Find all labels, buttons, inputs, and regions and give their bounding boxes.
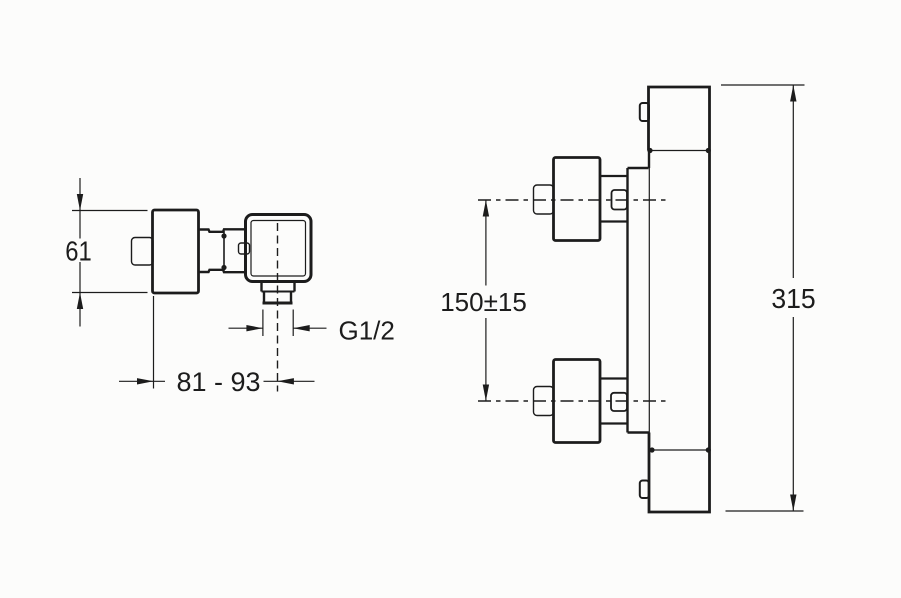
front view: lower small tab (611, 393, 627, 411)
dim 61: arrow down (77, 194, 83, 211)
front view: lower centerline (478, 400, 666, 402)
front view: top cap junction dot right (706, 148, 711, 153)
dim 315: arrow down (790, 495, 796, 512)
dim 315: lower dimension line (792, 317, 794, 511)
side view: outlet nut right side (293, 281, 295, 292)
dim G1/2: left arrow (246, 325, 263, 331)
dim 315: arrow up (790, 85, 796, 102)
front view: top cap side tab (640, 103, 649, 121)
side view: neck top edge (199, 229, 246, 232)
front view: connecting pipe left edge (626, 168, 628, 433)
dim 81-93: left dimension line (119, 380, 165, 382)
front view: top cap bottom edge (649, 150, 710, 152)
front view: lower collar top edge (600, 377, 627, 379)
dim 315: bottom extension line (726, 510, 804, 512)
dim 61: vertical dimension line upper (79, 178, 81, 239)
front view: bottom cap junction dot left (649, 447, 654, 452)
dim 81-93: extension line (153, 296, 155, 389)
front view: bottom cap side tab (640, 481, 649, 499)
side view: neck bottom edge (199, 270, 246, 272)
dim 61: bottom extension line (72, 292, 148, 294)
front view: bar left edge (648, 168, 650, 433)
dim G1/2: right dimension line (293, 327, 326, 329)
side view: handle button (132, 238, 154, 266)
front view: upper collar bottom edge (600, 220, 627, 222)
dim 150: lower dimension line (485, 318, 487, 401)
side view: aerator bottom (263, 302, 293, 305)
front view: upper handle (554, 158, 601, 241)
dim 150: upper dimension line (485, 200, 487, 286)
front view: bar left edge upper segment (648, 151, 650, 169)
front view: connecting pipe bottom edge (628, 431, 650, 433)
side view: neck junction dot bottom (221, 265, 226, 270)
side view: neck junction dot top (221, 233, 226, 238)
svg-text:81 - 93: 81 - 93 (176, 367, 260, 397)
dim 315: top extension line (721, 84, 805, 86)
side view: outlet shoulder (262, 291, 295, 293)
front view: upper handle button (534, 185, 554, 214)
dim G1/2: right extension line (292, 310, 294, 337)
dim 315: upper dimension line (792, 85, 794, 278)
dim G1/2: left extension line (262, 310, 264, 337)
dim G1/2: left dimension line (229, 327, 263, 329)
svg-text:315: 315 (771, 282, 815, 314)
front view: top cap junction dot left (647, 148, 652, 153)
dim 150: arrow up (483, 200, 489, 217)
side view: aerator right side (290, 292, 292, 304)
dim 61: vertical dimension line lower (79, 262, 81, 327)
front view: bottom cap junction dot right (706, 447, 711, 452)
dim 81-93: left arrow (137, 378, 154, 384)
svg-text:G1/2: G1/2 (339, 316, 395, 346)
svg-text:150±15: 150±15 (440, 287, 527, 317)
front view: lower handle (554, 360, 601, 443)
side view: handle knob (153, 210, 199, 293)
front view: bottom cap top edge (652, 449, 710, 451)
front view: upper collar top edge (600, 175, 627, 177)
dim 150: arrow down (483, 385, 489, 402)
svg-text:61: 61 (65, 235, 91, 267)
dim 61: arrow up (77, 293, 83, 310)
side view: vertical dashed centerline (277, 223, 279, 392)
front view: top cap (649, 87, 710, 151)
side view: aerator left side (263, 292, 265, 304)
dim 61: top extension line (72, 210, 148, 212)
side view: square body inner line (251, 221, 306, 277)
front view: bottom cap (649, 433, 710, 513)
front view: lower collar bottom edge (600, 422, 627, 424)
front view: connecting pipe top edge (628, 167, 649, 169)
front view: lower handle button (534, 387, 554, 416)
side view: clip tab on body left (239, 243, 250, 254)
side view: flange front edge (244, 230, 246, 273)
side view: neck inner line 2 (223, 231, 225, 271)
front view: upper small tab (612, 190, 628, 210)
front view: upper centerline (478, 199, 666, 201)
front view: bar right edge (708, 151, 711, 451)
side view: outlet nut left side (260, 281, 262, 292)
side view: square body outer (246, 215, 312, 282)
dim G1/2: right arrow (293, 325, 310, 331)
dim 81-93: right arrow (277, 378, 294, 384)
dim 81-93: right dimension line (264, 380, 315, 382)
